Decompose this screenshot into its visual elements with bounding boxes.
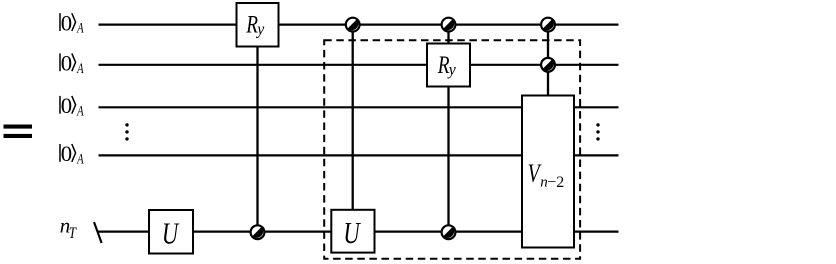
- svg-text:A: A: [76, 61, 84, 77]
- svg-text:0: 0: [61, 11, 72, 35]
- svg-text:y: y: [447, 60, 456, 79]
- svg-text:0: 0: [61, 142, 72, 166]
- svg-text:U: U: [343, 216, 361, 250]
- svg-text:A: A: [76, 21, 84, 37]
- svg-text:A: A: [76, 152, 84, 168]
- svg-text:A: A: [76, 103, 84, 119]
- svg-text:T: T: [69, 225, 77, 242]
- svg-text:U: U: [162, 216, 180, 250]
- svg-text:y: y: [255, 20, 264, 39]
- svg-text:0: 0: [61, 52, 72, 76]
- svg-text:0: 0: [61, 94, 72, 118]
- svg-text:−2: −2: [547, 174, 564, 191]
